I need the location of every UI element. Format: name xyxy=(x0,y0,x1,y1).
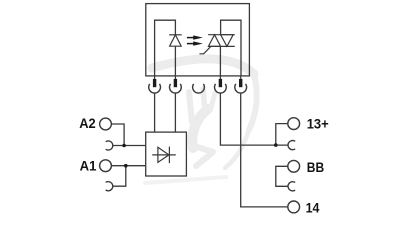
wire A2 to junction xyxy=(111,124,124,146)
svg-text:BB: BB xyxy=(307,159,324,175)
pin 1 xyxy=(153,76,156,87)
junction 13+ xyxy=(274,143,278,147)
terminal BB label xyxy=(307,159,324,175)
wire socket5 to 14 xyxy=(241,93,288,207)
junction A2 xyxy=(122,144,126,148)
wire socket4 to 13+ net xyxy=(220,93,288,145)
watermark logo xyxy=(145,59,257,183)
pin 5 xyxy=(239,76,242,87)
wire pin1 staple to LED cathode xyxy=(155,20,176,76)
triac gate xyxy=(199,46,210,53)
terminal A1 label xyxy=(80,158,97,174)
svg-text:13+: 13+ xyxy=(307,116,329,132)
terminal A2 circle xyxy=(100,118,112,130)
rectifier block xyxy=(146,132,187,176)
wire socket2 to rectifier xyxy=(174,93,176,132)
terminal 13+ label xyxy=(307,116,329,132)
terminal BB circle xyxy=(288,160,300,172)
terminal 13+ circle xyxy=(288,118,300,130)
socket arc below BB xyxy=(288,182,295,191)
pin 2 xyxy=(174,76,177,87)
terminal A2 label xyxy=(79,115,96,131)
junction A1 xyxy=(124,164,128,168)
socket contact 2 xyxy=(170,84,182,93)
socket arc below A1 xyxy=(106,182,113,191)
socket contact 1 xyxy=(149,84,161,93)
socket arc below 13+ xyxy=(288,141,295,150)
wire BB bridge xyxy=(276,166,288,186)
terminal 14 label xyxy=(306,200,320,216)
light arrow 2 xyxy=(187,41,203,45)
wire LED anode to pin2 xyxy=(174,46,176,76)
opto-coupler box U1 xyxy=(146,4,250,76)
svg-text:A1: A1 xyxy=(80,158,97,174)
socket contact 3 empty xyxy=(193,84,205,93)
svg-text:A2: A2 xyxy=(79,115,96,131)
wire arcA2 to rectifier xyxy=(113,145,146,147)
rectifier diode icon xyxy=(152,147,176,164)
terminal 14 circle xyxy=(288,201,300,213)
LED diode xyxy=(169,35,182,46)
socket arc below A2 xyxy=(106,141,113,150)
wire triac MT2 staple to pin5 xyxy=(221,20,241,76)
triac xyxy=(208,35,235,47)
socket contact 5 xyxy=(235,84,247,93)
socket contact 4 xyxy=(215,84,227,93)
wire arcA1 to junction xyxy=(113,166,126,187)
light arrow 1 xyxy=(187,35,203,39)
wire triac MT1 to pin4 xyxy=(219,46,221,76)
wire A1 to rectifier xyxy=(111,165,145,167)
svg-text:14: 14 xyxy=(306,200,320,216)
wire socket1 to rectifier xyxy=(154,93,156,132)
wire 13+ to junction xyxy=(276,124,288,146)
terminal A1 circle xyxy=(100,160,112,172)
pin 4 xyxy=(219,76,222,87)
